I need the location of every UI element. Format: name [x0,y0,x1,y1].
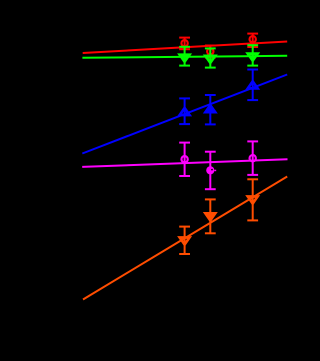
magenta point 1 marker [181,156,187,162]
red point 3 marker [250,36,256,42]
magenta point 2 error bar [205,152,216,190]
magenta point 1 error bar [179,143,190,176]
magenta series fit line [82,159,287,167]
orange point 1 error bar [179,227,190,254]
orange point 2 marker [205,213,215,220]
green point 2 marker [205,56,215,63]
blue point 2 error bar [205,95,216,124]
blue series fit line [82,75,287,154]
green point 3 marker [248,54,258,61]
orange point 1 marker [180,238,190,245]
magenta point 2 marker [206,166,214,174]
blue point 1 error bar [179,98,190,124]
green point 1 marker [180,55,190,62]
blue point 3 marker [248,81,258,88]
green point 1 error bar [179,47,190,66]
orange point 3 marker [248,197,258,204]
red point 1 error bar [179,38,190,50]
red point 2 marker [207,48,213,54]
red point 2 error bar [205,46,216,58]
magenta point 3 error bar [247,141,258,175]
orange point 3 error bar [247,179,258,220]
orange point 2 error bar [205,199,216,233]
green series fit line [82,56,287,58]
green point 2 error bar [205,48,216,67]
blue point 2 marker [205,105,215,112]
blue point 1 marker [180,108,190,115]
magenta point 3 marker [250,155,256,161]
orange series fit line [83,177,287,300]
red point 3 error bar [247,34,258,47]
green point 3 error bar [247,45,258,65]
red point 1 marker [181,40,187,46]
red series fit line [83,42,288,54]
blue point 3 error bar [247,70,258,101]
